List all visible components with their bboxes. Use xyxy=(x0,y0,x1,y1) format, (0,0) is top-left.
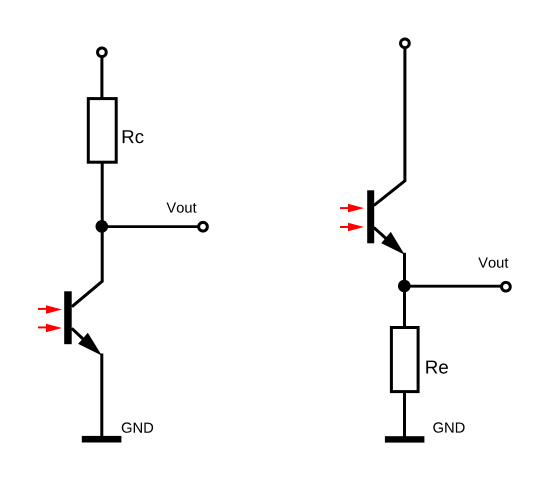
wire Vcc to Rc top xyxy=(100,57,103,99)
terminal Vcc (left circuit, open circle) xyxy=(98,48,107,57)
wire emitter to junction right xyxy=(403,253,406,287)
wire junction to Re top xyxy=(403,286,406,328)
light arrow 2 into Q2 xyxy=(340,223,364,232)
phototransistor Q2 emitter arrowhead xyxy=(381,232,405,255)
phototransistor Q2 base bar xyxy=(367,190,374,243)
label Vout left xyxy=(167,203,197,213)
label Vout right xyxy=(478,258,508,268)
light arrow 1 into Q2 xyxy=(340,204,364,213)
resistor Re xyxy=(391,328,418,392)
phototransistor Q1 emitter arrowhead xyxy=(78,333,102,356)
terminal Vcc (right circuit, open circle) xyxy=(401,39,410,48)
ground symbol right xyxy=(385,436,425,442)
phototransistor Q1 base bar xyxy=(64,291,72,344)
label Rc xyxy=(123,130,144,143)
phototransistor Q1 emitter line xyxy=(72,328,90,345)
junction dot node Vout right xyxy=(398,280,411,293)
phototransistor Q2 emitter line xyxy=(374,228,393,245)
light arrow 1 into Q1 xyxy=(38,305,62,314)
wire emitter to GND left xyxy=(100,354,103,438)
wire Vcc to collector corner right xyxy=(374,48,405,206)
wire Re bottom to GND right xyxy=(403,391,406,438)
junction dot node Vout left xyxy=(96,220,109,233)
terminal Vout left (open circle) xyxy=(199,222,208,231)
wire Rc bottom to collector corner xyxy=(72,162,102,307)
light arrow 2 into Q1 xyxy=(38,324,62,333)
resistor Rc xyxy=(88,99,116,163)
ground symbol left xyxy=(82,436,122,443)
label GND left xyxy=(122,422,153,432)
terminal Vout right (open circle) xyxy=(502,282,511,291)
wire junction to Vout terminal right xyxy=(404,285,505,288)
label Re xyxy=(426,361,448,374)
label GND right xyxy=(433,422,464,432)
wire junction to Vout terminal left xyxy=(102,225,202,228)
